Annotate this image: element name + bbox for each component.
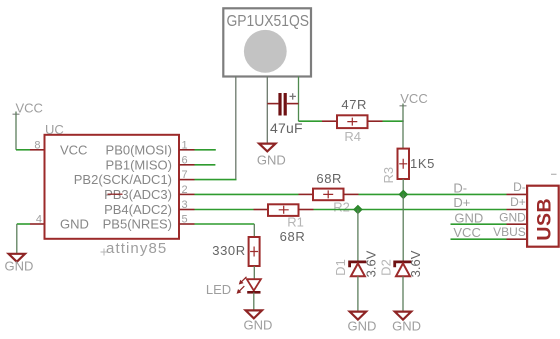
svg-text:PB1(MISO): PB1(MISO) (106, 157, 172, 172)
wire pin1 stub net (195, 149, 216, 151)
svg-text:UC: UC (45, 122, 64, 137)
svg-text:PB4(ADC2): PB4(ADC2) (104, 202, 172, 217)
resistor R3 body (398, 149, 410, 179)
capacitor C1 left lead (267, 103, 278, 105)
USB connector origin cross (551, 173, 557, 175)
svg-text:D-: D- (513, 180, 526, 194)
svg-text:VCC: VCC (400, 91, 427, 106)
svg-text:1K5: 1K5 (410, 156, 435, 171)
pin 7 stub (179, 179, 195, 181)
junction D- R3 D2 (399, 190, 407, 198)
pin 2 stub (179, 193, 195, 195)
USB pin VBUS (507, 238, 528, 240)
svg-text:4: 4 (36, 214, 42, 226)
svg-text:GND: GND (499, 210, 526, 224)
USB pin D+ (507, 209, 528, 211)
wire VCC stub (451, 238, 507, 240)
svg-text:R2: R2 (333, 199, 350, 214)
svg-text:GND: GND (454, 211, 483, 226)
svg-text:47R: 47R (341, 97, 367, 112)
wire R4 to VCC drop (383, 120, 404, 122)
wire pin4 to ground (17, 223, 30, 225)
resistor R1 left pin (254, 209, 269, 211)
wire pin6 stub net (195, 164, 216, 166)
svg-text:R3: R3 (381, 167, 396, 184)
svg-text:GND: GND (60, 217, 89, 232)
svg-text:GP1UX51QS: GP1UX51QS (227, 13, 310, 30)
svg-text:PB2(SCK/ADC1): PB2(SCK/ADC1) (74, 172, 172, 187)
svg-text:68R: 68R (280, 229, 306, 244)
capacitor C1 plates (278, 93, 281, 116)
ground lower left (9, 254, 25, 262)
svg-text:R1: R1 (287, 215, 304, 230)
pin 4 stub (30, 223, 45, 225)
svg-text:68R: 68R (316, 171, 342, 186)
junction D+ D1 (354, 205, 362, 213)
wire D- right segment (359, 193, 507, 195)
svg-text:GND: GND (348, 318, 377, 333)
svg-text:VCC: VCC (60, 142, 87, 157)
pin 5 stub (179, 223, 195, 225)
wire D1 to ground (357, 276, 359, 311)
ground under LED (246, 310, 262, 318)
capacitor C1 polarity plus (290, 93, 296, 99)
wire 330R top (253, 224, 255, 237)
svg-text:PB5(NRES): PB5(NRES) (103, 217, 172, 232)
resistor R1 body (268, 204, 299, 216)
svg-text:47uF: 47uF (270, 120, 303, 136)
svg-text:D-: D- (453, 181, 467, 196)
wire D+ right segment (314, 209, 507, 211)
USB pin D- (507, 193, 528, 195)
resistor R2 right pin (344, 193, 359, 195)
IC U1 attiny85 body (45, 135, 180, 239)
wire GND stub (451, 223, 507, 225)
svg-text:USB: USB (534, 198, 556, 241)
wire junction to D2 (402, 194, 404, 261)
svg-text:D+: D+ (510, 195, 526, 209)
svg-text:R4: R4 (344, 129, 361, 144)
pin 1 stub (179, 149, 195, 151)
svg-text:VCC: VCC (15, 100, 42, 115)
svg-text:VCC: VCC (453, 225, 480, 240)
resistor R4 right pin (368, 120, 383, 122)
svg-text:D+: D+ (453, 195, 470, 210)
USB connector X1 body (527, 186, 559, 247)
svg-text:3.6V: 3.6V (408, 250, 423, 277)
svg-text:GND: GND (392, 318, 421, 333)
svg-text:GND: GND (5, 259, 34, 274)
wire VCC node to R4 (299, 120, 323, 122)
zener diode D2 (395, 262, 412, 267)
resistor R1 right pin (299, 209, 314, 211)
LED arrows (241, 277, 246, 282)
wire junction to D1 (357, 210, 359, 262)
svg-text:D1: D1 (333, 259, 348, 276)
svg-text:8: 8 (34, 139, 40, 151)
ground under capacitor (259, 144, 275, 152)
svg-text:330R: 330R (212, 243, 245, 258)
svg-text:D2: D2 (378, 259, 393, 276)
pin 8 stub (30, 149, 45, 151)
IR receiver lens circle (244, 30, 287, 73)
wire D2 to ground (402, 276, 404, 311)
wire pin7 to IR OUT (195, 179, 237, 181)
wire IR pin1 OUT vertical (235, 77, 237, 180)
wire VCC to pin8 (16, 149, 30, 151)
wire pin5 to 330R (195, 223, 255, 225)
LED1 (247, 279, 261, 290)
svg-text:GND: GND (244, 318, 273, 333)
wire IR pin3 VCC vertical (298, 77, 300, 122)
resistor R2 body (313, 189, 344, 201)
wire 330R to LED (253, 266, 255, 279)
svg-text:VBUS: VBUS (493, 225, 526, 239)
wire D+ left segment (195, 209, 254, 211)
wire D- left segment (195, 193, 299, 195)
resistor R2 left pin (299, 193, 314, 195)
capacitor C1 right lead (287, 103, 299, 105)
wire IR pin2 GND vertical (266, 77, 268, 144)
wire R3 bottom to D- junction (402, 179, 404, 194)
pin 3 stub (179, 209, 195, 211)
resistor R4 body (337, 115, 368, 128)
zener diode D1 (350, 262, 367, 267)
ground under D2 (395, 312, 411, 320)
stray wire over PB3 (108, 193, 123, 195)
svg-text:PB0(MOSI): PB0(MOSI) (106, 142, 172, 157)
IC value attiny85 (101, 249, 108, 256)
ground under D1 (350, 312, 366, 320)
wire LED to ground (253, 292, 255, 310)
svg-text:3.6V: 3.6V (363, 250, 378, 277)
pin 6 stub (179, 164, 195, 166)
svg-text:LED: LED (206, 282, 231, 297)
USB pin GND (507, 223, 528, 225)
resistor R4 left pin (322, 120, 337, 122)
svg-text:attiny85: attiny85 (106, 240, 167, 257)
IR receiver module U2 box (223, 8, 311, 76)
svg-text:GND: GND (257, 153, 286, 168)
resistor 330R body (249, 237, 260, 266)
